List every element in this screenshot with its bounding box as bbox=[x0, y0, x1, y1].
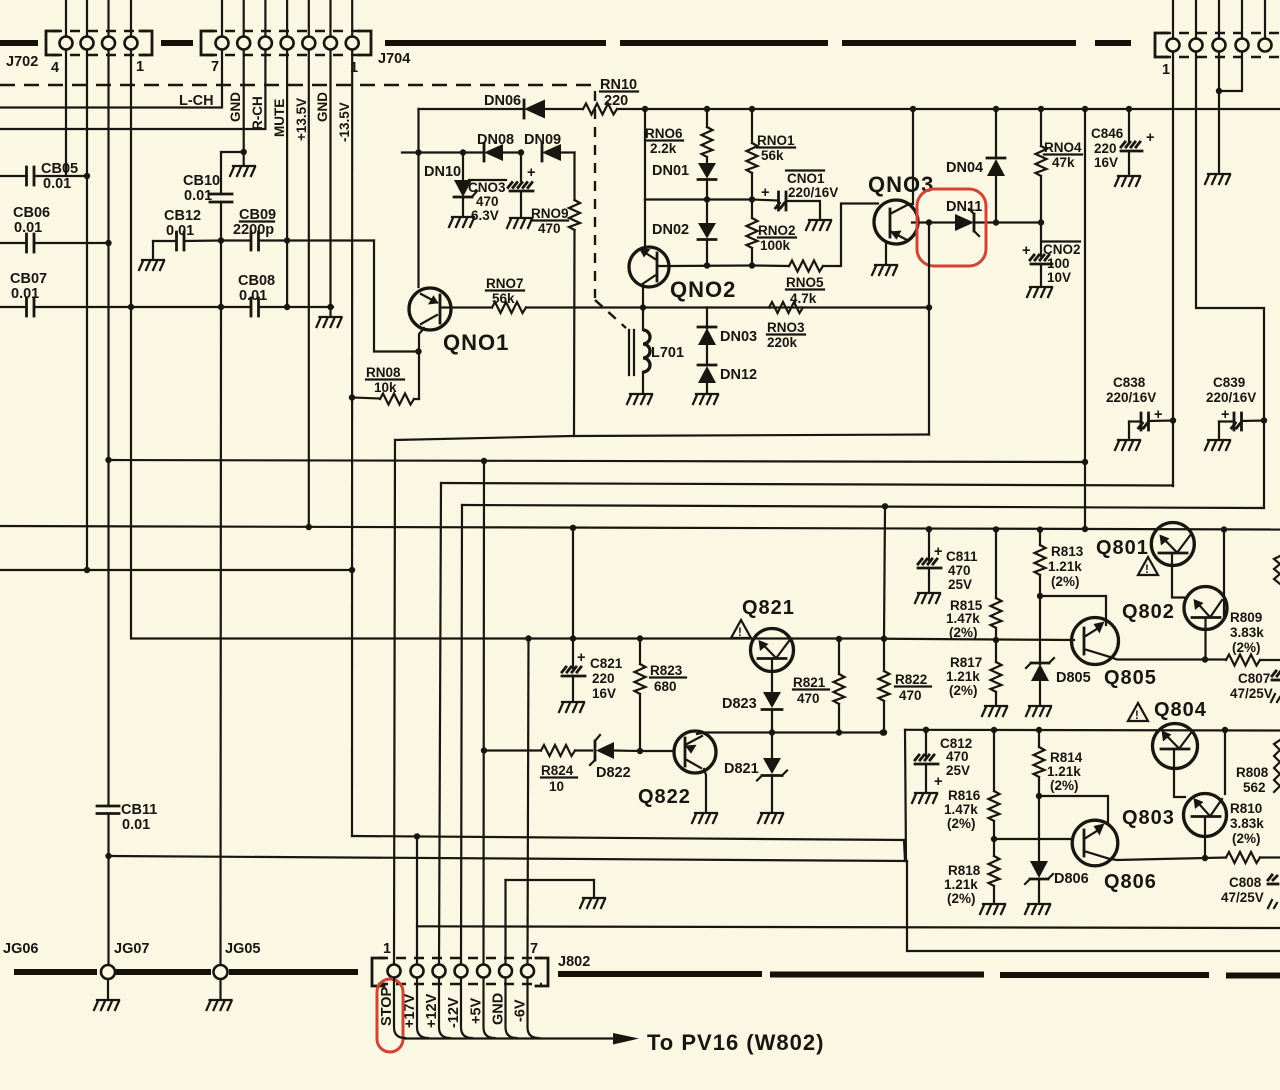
wire Q806 emitter to R810 line bbox=[1110, 858, 1205, 860]
junction R813 top bbox=[1037, 526, 1043, 532]
svg-text:+5V: +5V bbox=[469, 997, 485, 1024]
svg-text:0.01: 0.01 bbox=[43, 176, 71, 192]
ground CN02 bbox=[1027, 287, 1052, 297]
svg-text:0.01: 0.01 bbox=[184, 188, 212, 204]
wire C839 col to rail-top bbox=[1262, 421, 1264, 509]
wire to CB10 bbox=[221, 152, 244, 194]
svg-text:1.21k: 1.21k bbox=[1047, 764, 1081, 779]
wire H2 bus bbox=[109, 460, 1086, 462]
junction DN11 col bbox=[926, 219, 932, 225]
wire riser +5V bbox=[482, 461, 485, 964]
wires above J702 pins bbox=[66, 0, 131, 37]
wire QN01 base to RN07 bbox=[440, 306, 492, 308]
wire R813 to Q805 collector bbox=[1040, 596, 1106, 625]
junction R815 top bbox=[993, 526, 999, 532]
junction DN04/RN04 row bbox=[993, 219, 999, 225]
junction R814 bottom bbox=[1036, 793, 1042, 799]
wire Q801 base to Q802 bbox=[1172, 555, 1184, 598]
junction R815 bottom rail bbox=[993, 637, 999, 643]
svg-text:220/16V: 220/16V bbox=[1106, 390, 1156, 405]
svg-text:RNO3: RNO3 bbox=[767, 320, 805, 335]
svg-text:R808: R808 bbox=[1236, 765, 1269, 780]
svg-text:-13.5V: -13.5V bbox=[337, 102, 352, 142]
wire -13.5V column bbox=[351, 50, 353, 837]
wire QN01 emitter down bbox=[419, 328, 424, 399]
ground C839 bbox=[1205, 440, 1230, 450]
wire QN03 emitter to ground bbox=[885, 242, 887, 264]
svg-text:R824: R824 bbox=[541, 763, 574, 778]
junction RN01 col bbox=[749, 106, 755, 112]
wire H5 mute bus bbox=[0, 526, 1280, 530]
junction rail x884 bbox=[881, 636, 887, 642]
svg-text:(2%): (2%) bbox=[947, 891, 976, 906]
wire Q805 emitter to R809 line bbox=[1110, 657, 1205, 660]
junction CB10/CB12/CB09 bbox=[218, 237, 224, 243]
svg-text:R-CH: R-CH bbox=[250, 96, 265, 130]
svg-text:GND: GND bbox=[315, 92, 330, 122]
main top wire DN06/RN10 row bbox=[419, 108, 524, 110]
junction Q803 emitter bbox=[1202, 855, 1208, 861]
junction RN04 col bbox=[1038, 106, 1044, 112]
wire DN08/DN09 row bbox=[402, 151, 483, 153]
svg-text:J704: J704 bbox=[378, 51, 410, 67]
svg-text:1: 1 bbox=[1162, 62, 1170, 78]
svg-text:220k: 220k bbox=[767, 335, 798, 350]
svg-text:R810: R810 bbox=[1230, 801, 1262, 816]
junction R814 top bbox=[1036, 727, 1042, 733]
wire right drop x907 bbox=[907, 861, 1280, 951]
wire CB09 route to QN01 emitter bbox=[374, 241, 419, 352]
svg-text:RNO6: RNO6 bbox=[645, 126, 683, 141]
junction -13.5V y570 bbox=[349, 567, 355, 573]
junction CB08/GND2 bbox=[327, 304, 333, 310]
ground CN03 bbox=[507, 218, 532, 228]
svg-text:+: + bbox=[1022, 243, 1030, 259]
junction DN01/DN02 mid bbox=[704, 196, 710, 202]
svg-text:0.01: 0.01 bbox=[239, 288, 267, 304]
junction RN01/RN02 mid bbox=[749, 196, 755, 202]
wire Q821 emitter down bbox=[771, 660, 773, 692]
red highlight STOP bbox=[377, 979, 403, 1052]
ground D806 bbox=[1025, 904, 1050, 914]
transistor Q802 bbox=[1184, 587, 1227, 630]
svg-text:47k: 47k bbox=[1052, 155, 1075, 170]
J702 pin 3 bbox=[102, 37, 115, 50]
junction H2 left bbox=[105, 457, 111, 463]
top bus thick segments bbox=[0, 40, 38, 46]
wire riser GND J802 bbox=[504, 880, 506, 964]
junction rail-top x885 bbox=[882, 503, 888, 509]
wire Q805 base rail bbox=[884, 639, 1074, 640]
ground GND2 bbox=[317, 317, 342, 327]
wire pin leads to PV16 bundle bbox=[394, 978, 405, 1039]
junction RN07 line end bbox=[926, 304, 932, 310]
wire Q804 base to Q803 bbox=[1174, 750, 1185, 797]
junction R821 bottom bbox=[836, 729, 842, 735]
svg-text:RNO7: RNO7 bbox=[486, 276, 524, 291]
wire top-right pin3 ground column bbox=[1218, 52, 1220, 174]
transistor Q822 bbox=[674, 731, 716, 773]
svg-text:220/16V: 220/16V bbox=[1206, 390, 1256, 405]
junction Q802 emitter bbox=[1202, 656, 1208, 662]
svg-text:C807: C807 bbox=[1238, 671, 1270, 686]
junction CB07 line x131 bbox=[128, 304, 134, 310]
svg-text:2.2k: 2.2k bbox=[650, 141, 677, 156]
svg-text:L701: L701 bbox=[651, 345, 684, 361]
wire Q806 base line bbox=[994, 838, 1072, 840]
connector JG07 pin bbox=[101, 965, 115, 979]
svg-text:R814: R814 bbox=[1050, 750, 1083, 765]
svg-text:220/16V: 220/16V bbox=[788, 185, 838, 200]
svg-text:DN03: DN03 bbox=[720, 329, 757, 345]
svg-text:CB10: CB10 bbox=[183, 173, 220, 189]
svg-text:+: + bbox=[934, 774, 942, 790]
ground C821 bbox=[559, 702, 584, 712]
ground R817 bbox=[982, 706, 1007, 716]
svg-text:25V: 25V bbox=[946, 763, 970, 778]
wire MUTE down bbox=[286, 50, 288, 308]
junction pin3/pin4 bbox=[1216, 88, 1222, 94]
junction CB06 bbox=[105, 240, 111, 246]
wire x885 riser rail-top to rail bbox=[884, 506, 885, 638]
svg-text:Q802: Q802 bbox=[1122, 601, 1175, 623]
zener D805 bbox=[1039, 596, 1041, 664]
svg-text:(2%): (2%) bbox=[1051, 574, 1080, 589]
svg-text:Q804: Q804 bbox=[1154, 699, 1207, 721]
wire Q822 emitter bbox=[704, 769, 706, 812]
svg-text:1.21k: 1.21k bbox=[944, 877, 978, 892]
svg-text:1.21k: 1.21k bbox=[1048, 559, 1082, 574]
warning triangle Q804 bbox=[1128, 703, 1148, 721]
svg-text:100k: 100k bbox=[760, 238, 791, 253]
ground JG05 bbox=[219, 979, 221, 999]
wire QN02 collector up bbox=[644, 200, 646, 252]
svg-text:470: 470 bbox=[948, 563, 971, 578]
wires above top-right pins bbox=[1173, 0, 1265, 39]
junction H5 x1085 bbox=[1082, 526, 1088, 532]
J704 pins 7..1 bbox=[216, 37, 229, 50]
svg-text:220: 220 bbox=[1094, 141, 1117, 156]
svg-text:3.83k: 3.83k bbox=[1230, 625, 1264, 640]
ground top-right pins bbox=[1205, 174, 1230, 184]
svg-text:3.83k: 3.83k bbox=[1230, 816, 1264, 831]
junction H5 +13.5V bbox=[306, 524, 312, 530]
wire R814 to Q806 collector bbox=[1039, 796, 1108, 823]
junction RN08 left bbox=[349, 394, 355, 400]
svg-text:C808: C808 bbox=[1229, 875, 1262, 890]
svg-text:QNO2: QNO2 bbox=[670, 277, 736, 302]
svg-text:D805: D805 bbox=[1056, 670, 1091, 686]
wire y856 bus bbox=[109, 856, 908, 861]
svg-text:RNO9: RNO9 bbox=[531, 206, 569, 221]
svg-text:DN11: DN11 bbox=[946, 199, 982, 215]
svg-text:RNO5: RNO5 bbox=[786, 275, 824, 290]
svg-text:680: 680 bbox=[654, 679, 677, 694]
wire DN09 to RN09 bbox=[573, 153, 575, 201]
svg-text:+: + bbox=[527, 165, 535, 181]
arrow To PV16 bbox=[613, 1033, 639, 1045]
ground DN12 bbox=[693, 394, 718, 404]
junction CN03 col bbox=[518, 149, 524, 155]
zener D806 bbox=[1038, 796, 1040, 860]
ground DN10 bbox=[449, 217, 474, 227]
svg-text:R816: R816 bbox=[948, 788, 981, 803]
svg-text:CB08: CB08 bbox=[238, 273, 275, 289]
wire to Q822 base bbox=[640, 750, 674, 752]
svg-text:0.01: 0.01 bbox=[122, 817, 150, 833]
junction R823 bottom bbox=[637, 748, 643, 754]
svg-text:DN01: DN01 bbox=[652, 163, 689, 179]
junction R821 top bbox=[836, 636, 842, 642]
svg-text:+13.5V: +13.5V bbox=[294, 98, 309, 141]
svg-text:D823: D823 bbox=[722, 696, 757, 712]
junction C821 top bbox=[570, 635, 576, 641]
transistor Q801 bbox=[1151, 523, 1194, 566]
svg-text:Q806: Q806 bbox=[1104, 871, 1157, 893]
transistor Q803 bbox=[1184, 794, 1227, 837]
junction RN06 col bbox=[704, 106, 710, 112]
junction x418 DN08 row bbox=[415, 149, 421, 155]
junction DN04 col bbox=[993, 106, 999, 112]
transistor QN02 bbox=[629, 247, 669, 287]
junction R824 line left on +5V riser bbox=[481, 747, 487, 753]
svg-text:1.21k: 1.21k bbox=[946, 669, 980, 684]
junction H2 right bbox=[1082, 459, 1088, 465]
svg-text:CB07: CB07 bbox=[10, 271, 47, 287]
junction R816 top bbox=[991, 727, 997, 733]
transistor Q804 bbox=[1153, 724, 1198, 769]
wire Q802 collector up bbox=[1223, 530, 1225, 619]
svg-text:!: ! bbox=[738, 627, 742, 639]
svg-text:+: + bbox=[1146, 130, 1154, 146]
svg-text:+: + bbox=[761, 185, 769, 201]
junction CB05 bbox=[84, 173, 90, 179]
wire y570 bus bbox=[0, 569, 352, 571]
wire QN02 emitter down bbox=[642, 284, 644, 308]
mid rail y730 bbox=[905, 729, 1280, 732]
bottom JG bus thick bbox=[14, 969, 97, 975]
J702 pin 1 bbox=[60, 37, 73, 50]
junction +17V riser bbox=[414, 833, 420, 839]
svg-text:QNO1: QNO1 bbox=[443, 330, 509, 355]
junction QN01 emitter bbox=[415, 348, 421, 354]
svg-text:C811: C811 bbox=[946, 549, 978, 564]
svg-text:D806: D806 bbox=[1054, 871, 1089, 887]
svg-text:R813: R813 bbox=[1051, 544, 1084, 559]
junction RN02 bottom bbox=[749, 262, 755, 268]
svg-text:D822: D822 bbox=[596, 765, 631, 781]
top right connector pins bbox=[1167, 39, 1180, 52]
dashed boundary line RN10 row bbox=[0, 84, 592, 86]
red highlight DN11 bbox=[917, 189, 986, 266]
svg-text:10: 10 bbox=[549, 779, 564, 794]
svg-text:JG06: JG06 bbox=[3, 941, 38, 957]
J702 pin 2 bbox=[81, 37, 94, 50]
svg-text:1: 1 bbox=[383, 941, 391, 957]
wire top-right pin2 column bbox=[1196, 52, 1264, 421]
svg-text:1.47k: 1.47k bbox=[944, 802, 978, 817]
svg-text:To PV16 (W802): To PV16 (W802) bbox=[647, 1030, 824, 1055]
junction CB07 line x221 bbox=[218, 304, 224, 310]
ground D805 bbox=[1026, 706, 1051, 716]
svg-text:1.47k: 1.47k bbox=[946, 611, 980, 626]
ground at J704 GND bbox=[243, 152, 245, 165]
junction DN02 bottom on base line bbox=[704, 262, 710, 268]
junction C839 right bbox=[1261, 417, 1267, 423]
wire x929 riser bbox=[928, 223, 930, 435]
wire QN02 base right bbox=[657, 264, 753, 267]
svg-text:C839: C839 bbox=[1213, 375, 1245, 390]
svg-text:R821: R821 bbox=[793, 675, 826, 690]
junction QN03 collector bbox=[910, 106, 916, 112]
svg-text:+: + bbox=[577, 650, 585, 666]
svg-text:Q801: Q801 bbox=[1096, 537, 1149, 559]
J702 pin 4 bbox=[125, 37, 138, 50]
svg-text:GND: GND bbox=[228, 92, 243, 122]
junction R822 bottom collector line bbox=[881, 729, 887, 735]
svg-text:0.01: 0.01 bbox=[166, 223, 194, 239]
wire J702 pin2 down bbox=[86, 50, 88, 571]
svg-text:47/25V: 47/25V bbox=[1230, 686, 1273, 701]
svg-text:4: 4 bbox=[51, 60, 59, 76]
wire J702 pin3 long column bbox=[107, 50, 109, 807]
svg-text:Q822: Q822 bbox=[638, 786, 691, 808]
warning triangle Q801 bbox=[1138, 557, 1158, 575]
svg-text:JG07: JG07 bbox=[114, 941, 149, 957]
svg-text:Q805: Q805 bbox=[1104, 667, 1157, 689]
wire GND jog to ground bbox=[506, 880, 595, 897]
wire x905 link bbox=[905, 730, 906, 861]
ground GND jog bbox=[580, 898, 605, 908]
svg-text:R818: R818 bbox=[948, 863, 981, 878]
junction C812 top bbox=[923, 727, 929, 733]
wire CB10 column down bbox=[220, 241, 222, 308]
svg-text:56k: 56k bbox=[761, 148, 784, 163]
svg-text:470: 470 bbox=[899, 688, 922, 703]
svg-text:220: 220 bbox=[592, 671, 615, 686]
svg-text:R809: R809 bbox=[1230, 610, 1262, 625]
svg-text:C846: C846 bbox=[1091, 126, 1124, 141]
wire corner to DN08 row bbox=[417, 109, 419, 287]
svg-text:RNO4: RNO4 bbox=[1044, 140, 1082, 155]
wire riser STOP bbox=[394, 440, 395, 964]
junction D823 bottom bbox=[769, 729, 775, 735]
svg-text:STOP: STOP bbox=[379, 986, 395, 1026]
connector J702 bracket bbox=[46, 31, 58, 55]
svg-text:CB12: CB12 bbox=[164, 208, 201, 224]
junction Q803 collector mid-rail bbox=[1222, 727, 1228, 733]
svg-text:+: + bbox=[934, 544, 942, 560]
wire mute col to C821 bbox=[572, 528, 574, 639]
wire y836 line bbox=[352, 836, 904, 840]
svg-text:J802: J802 bbox=[558, 954, 590, 970]
connector J704 bracket bbox=[201, 31, 213, 55]
junction R822 col y732 bbox=[880, 729, 886, 735]
junction C846 col bbox=[1126, 106, 1132, 112]
svg-text:J702: J702 bbox=[6, 54, 38, 70]
svg-text:R817: R817 bbox=[950, 655, 982, 670]
ground L701 bbox=[627, 394, 652, 404]
ground D821 bbox=[758, 813, 783, 823]
wire riser +17V bbox=[416, 836, 418, 964]
svg-text:470: 470 bbox=[946, 749, 969, 764]
junction y570 J702pin2 bbox=[84, 567, 90, 573]
svg-text:RNO2: RNO2 bbox=[758, 223, 796, 238]
node R-CH wire bbox=[0, 50, 265, 130]
svg-text:(2%): (2%) bbox=[1050, 778, 1079, 793]
junction C811 top bbox=[926, 526, 932, 532]
svg-text:0.01: 0.01 bbox=[14, 220, 42, 236]
wire y926 bus bbox=[417, 926, 1280, 928]
wire H1 stop bus bbox=[395, 435, 929, 441]
svg-text:16V: 16V bbox=[1094, 155, 1118, 170]
svg-text:562: 562 bbox=[1243, 780, 1266, 795]
wire Q802 emitter down bbox=[1204, 619, 1206, 660]
svg-text:C821: C821 bbox=[590, 656, 623, 671]
svg-text:(2%): (2%) bbox=[949, 683, 978, 698]
junction H5 C821 col bbox=[570, 525, 576, 531]
junction bbox=[241, 149, 247, 155]
ground Q822 bbox=[692, 813, 717, 823]
wire Q803 emitter down bbox=[1204, 818, 1206, 859]
svg-text:JG05: JG05 bbox=[225, 941, 260, 957]
junction -6V rail bbox=[525, 635, 531, 641]
svg-text:CB11: CB11 bbox=[121, 802, 157, 818]
wire x1085 column bbox=[1084, 109, 1086, 529]
J802 pins bbox=[388, 965, 401, 978]
wire JG05 column bbox=[219, 307, 222, 964]
wire top-right pin4 jog bbox=[1219, 52, 1242, 92]
wire GND pin down bbox=[243, 50, 245, 153]
ground C846 bbox=[1115, 176, 1140, 186]
junction QN02 collector col bbox=[642, 106, 648, 112]
svg-text:7: 7 bbox=[211, 59, 219, 75]
junction R816 bottom bbox=[991, 836, 997, 842]
connector J802 bracket bbox=[372, 958, 384, 986]
junction R823 top bbox=[637, 635, 643, 641]
junction DN10 col bbox=[460, 149, 466, 155]
svg-text:1: 1 bbox=[136, 59, 144, 75]
wire top-right pin1 column bbox=[1172, 52, 1174, 487]
ground C812 bbox=[912, 793, 937, 803]
svg-text:Q821: Q821 bbox=[742, 597, 795, 619]
capacitor CN03 470 6.3V bbox=[520, 153, 522, 182]
wire H3 bus bbox=[441, 483, 1172, 486]
junction QN02 emitter / L701 bbox=[640, 304, 646, 310]
transistor QN03 bbox=[874, 200, 918, 244]
svg-text:MUTE: MUTE bbox=[272, 99, 287, 137]
junction MUTE/CB08 line bbox=[284, 304, 290, 310]
ground JG07 bbox=[107, 979, 109, 999]
wire riser -6V bbox=[528, 639, 529, 965]
svg-text:GND: GND bbox=[491, 993, 507, 1025]
svg-text:470: 470 bbox=[538, 221, 561, 236]
svg-text:CB05: CB05 bbox=[41, 161, 78, 177]
connector JG05 pin bbox=[214, 965, 228, 979]
wire riser +12V bbox=[439, 483, 441, 964]
svg-text:-12V: -12V bbox=[446, 997, 462, 1028]
wire +13.5V down bbox=[308, 50, 310, 528]
wire riser -12V bbox=[461, 505, 462, 964]
svg-text:CB06: CB06 bbox=[13, 205, 50, 221]
svg-text:DN04: DN04 bbox=[946, 160, 983, 176]
svg-text:D821: D821 bbox=[724, 761, 759, 777]
junction MUTE/CB09 bbox=[284, 237, 290, 243]
wire Q803 collector up bbox=[1224, 730, 1226, 794]
edge resistor upper bbox=[1274, 556, 1280, 584]
svg-text:CNO3: CNO3 bbox=[468, 180, 506, 195]
dashed vertical boundary near L701 bbox=[594, 91, 596, 298]
